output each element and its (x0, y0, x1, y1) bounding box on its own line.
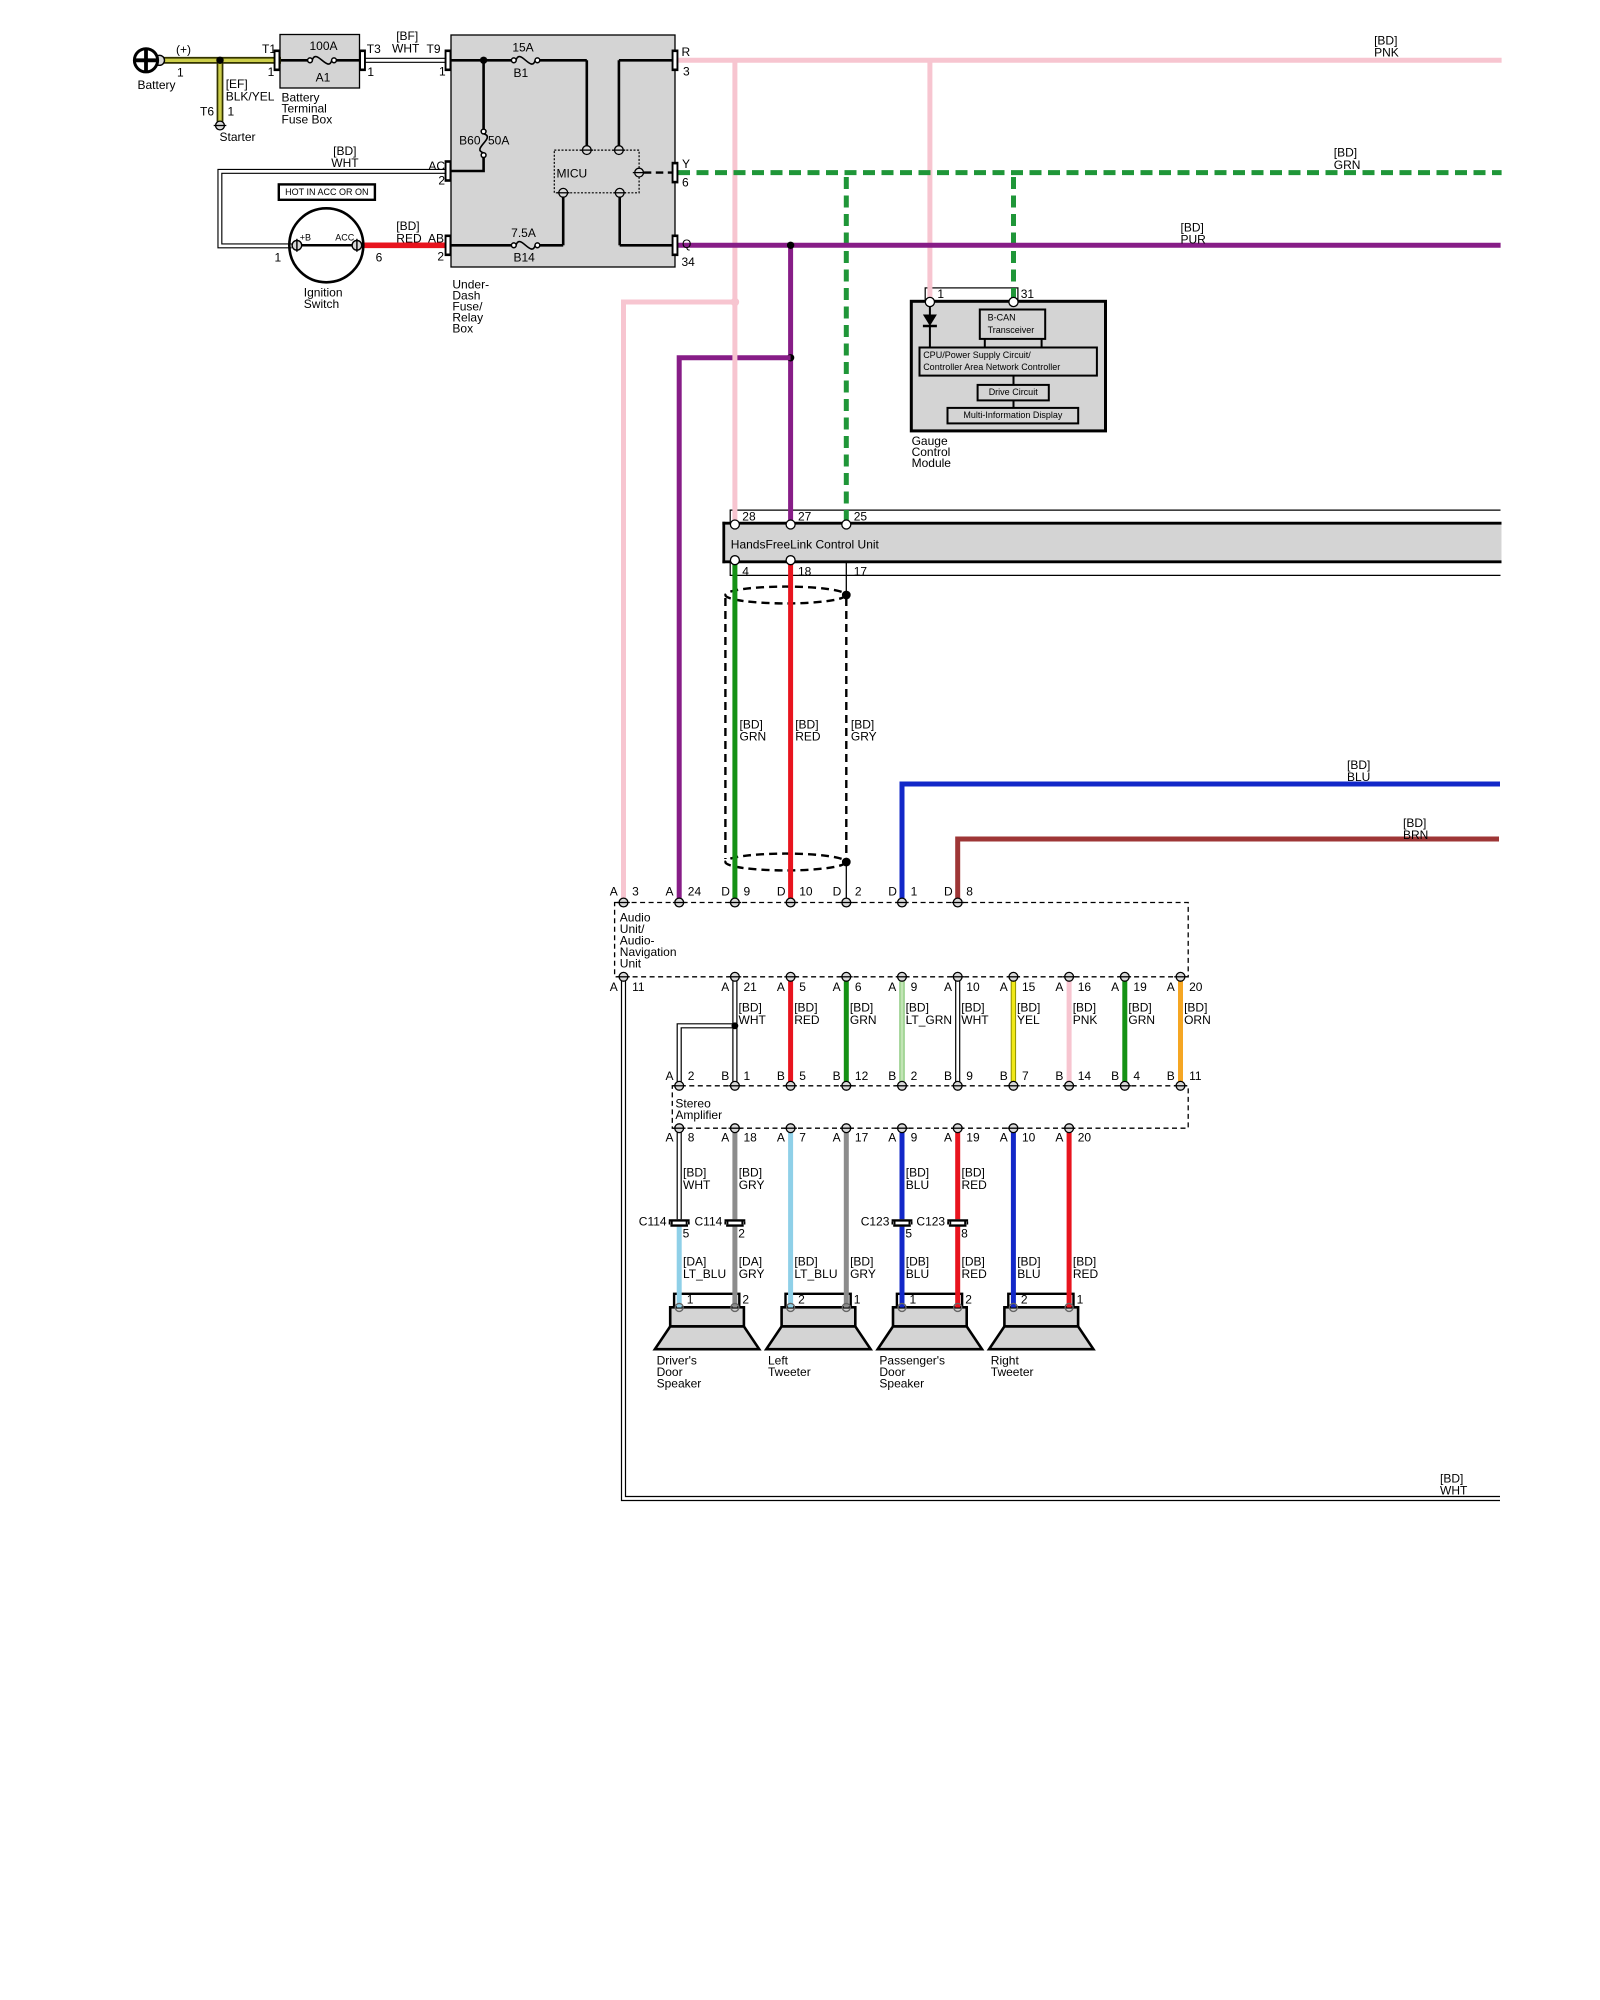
svg-text:RED: RED (396, 232, 422, 246)
svg-text:B: B (1055, 1069, 1063, 1083)
svg-text:Box: Box (452, 322, 473, 336)
svg-text:1: 1 (687, 1293, 694, 1307)
svg-text:24: 24 (688, 884, 702, 898)
svg-text:B: B (944, 1069, 952, 1083)
svg-text:Speaker: Speaker (657, 1377, 702, 1391)
svg-text:31: 31 (1021, 287, 1035, 301)
svg-text:B: B (777, 1069, 785, 1083)
svg-text:8: 8 (688, 1131, 695, 1145)
svg-text:WHT: WHT (1440, 1484, 1468, 1498)
svg-text:3: 3 (632, 884, 639, 898)
svg-text:1: 1 (439, 64, 446, 78)
svg-text:B: B (833, 1069, 841, 1083)
svg-text:5: 5 (799, 980, 806, 994)
svg-text:2: 2 (438, 173, 445, 187)
svg-text:A: A (610, 980, 618, 994)
svg-text:1: 1 (228, 104, 235, 118)
svg-text:GRY: GRY (739, 1267, 765, 1281)
svg-text:B-CAN: B-CAN (988, 313, 1016, 323)
svg-text:9: 9 (911, 980, 918, 994)
svg-text:A: A (666, 884, 674, 898)
svg-text:A: A (1055, 1131, 1063, 1145)
svg-text:ACC: ACC (335, 233, 355, 243)
svg-text:15A: 15A (512, 41, 533, 55)
svg-text:8: 8 (961, 1226, 968, 1240)
svg-text:ORN: ORN (1184, 1013, 1211, 1027)
svg-text:+B: +B (300, 233, 311, 243)
svg-text:9: 9 (966, 1069, 973, 1083)
svg-text:A: A (833, 1131, 841, 1145)
svg-text:11: 11 (1189, 1069, 1202, 1083)
svg-text:16: 16 (1078, 980, 1092, 994)
svg-text:C123: C123 (861, 1214, 890, 1228)
svg-text:D: D (833, 884, 842, 898)
svg-text:Controller Area Network Contro: Controller Area Network Controller (923, 362, 1060, 372)
svg-text:PUR: PUR (1181, 233, 1207, 247)
svg-text:A: A (721, 1131, 729, 1145)
svg-text:6: 6 (376, 251, 383, 265)
svg-text:T6: T6 (200, 104, 214, 118)
svg-text:MICU: MICU (557, 166, 588, 180)
svg-text:7: 7 (799, 1131, 806, 1145)
svg-text:GRN: GRN (850, 1013, 877, 1027)
svg-text:LT_BLU: LT_BLU (683, 1267, 726, 1281)
svg-text:27: 27 (798, 509, 812, 523)
svg-text:5: 5 (905, 1226, 912, 1240)
svg-text:Y: Y (682, 157, 690, 171)
svg-text:HOT IN ACC OR ON: HOT IN ACC OR ON (285, 187, 368, 197)
svg-text:Multi-Information Display: Multi-Information Display (963, 410, 1063, 420)
svg-text:6: 6 (682, 176, 689, 190)
svg-text:2: 2 (688, 1069, 695, 1083)
svg-text:18: 18 (798, 565, 812, 579)
svg-text:WHT: WHT (739, 1013, 767, 1027)
svg-text:20: 20 (1189, 980, 1203, 994)
svg-text:B: B (721, 1069, 729, 1083)
svg-text:A: A (1000, 980, 1008, 994)
svg-text:D: D (944, 884, 953, 898)
svg-text:WHT: WHT (331, 156, 359, 170)
svg-text:AC: AC (428, 159, 445, 173)
svg-text:BLU: BLU (1017, 1267, 1040, 1281)
svg-text:RED: RED (1073, 1267, 1099, 1281)
svg-text:A: A (1000, 1131, 1008, 1145)
svg-text:C114: C114 (695, 1214, 723, 1228)
svg-text:7.5A: 7.5A (511, 226, 536, 240)
svg-text:A: A (721, 980, 729, 994)
svg-text:Fuse Box: Fuse Box (282, 112, 333, 126)
svg-text:A: A (1055, 980, 1063, 994)
svg-text:GRY: GRY (851, 730, 877, 744)
svg-text:B: B (1167, 1069, 1175, 1083)
svg-text:B: B (1111, 1069, 1119, 1083)
svg-text:2: 2 (798, 1293, 805, 1307)
svg-text:19: 19 (1133, 980, 1147, 994)
svg-text:1: 1 (854, 1293, 861, 1307)
svg-text:YEL: YEL (1017, 1013, 1040, 1027)
svg-text:D: D (721, 884, 730, 898)
svg-text:GRY: GRY (739, 1178, 765, 1192)
svg-text:17: 17 (855, 1131, 869, 1145)
svg-text:Module: Module (912, 456, 952, 470)
svg-text:T9: T9 (427, 42, 441, 56)
svg-text:RED: RED (794, 1013, 820, 1027)
svg-text:A: A (666, 1069, 674, 1083)
svg-text:T3: T3 (367, 42, 381, 56)
svg-text:1: 1 (177, 65, 184, 79)
svg-text:19: 19 (966, 1131, 980, 1145)
svg-text:BLU: BLU (906, 1267, 929, 1281)
svg-text:B1: B1 (514, 66, 529, 80)
svg-text:Tweeter: Tweeter (991, 1365, 1034, 1379)
svg-text:B14: B14 (514, 251, 536, 265)
svg-text:Tweeter: Tweeter (768, 1365, 811, 1379)
svg-text:1: 1 (275, 251, 282, 265)
svg-text:2: 2 (742, 1293, 749, 1307)
svg-text:100A: 100A (309, 39, 337, 53)
svg-text:PNK: PNK (1374, 46, 1399, 60)
svg-text:3: 3 (683, 64, 690, 78)
svg-text:17: 17 (854, 565, 868, 579)
svg-text:Unit: Unit (620, 957, 642, 971)
svg-text:6: 6 (855, 980, 862, 994)
svg-text:B60: B60 (459, 134, 481, 148)
svg-text:GRN: GRN (1334, 158, 1361, 172)
svg-text:10: 10 (966, 980, 980, 994)
svg-text:HandsFreeLink Control Unit: HandsFreeLink Control Unit (731, 537, 880, 551)
svg-text:Starter: Starter (220, 130, 256, 144)
svg-text:WHT: WHT (392, 41, 420, 55)
svg-text:A: A (610, 884, 618, 898)
svg-text:A: A (1167, 980, 1175, 994)
svg-text:18: 18 (744, 1131, 758, 1145)
svg-text:7: 7 (1022, 1069, 1029, 1083)
svg-text:1: 1 (911, 884, 918, 898)
svg-text:12: 12 (855, 1069, 869, 1083)
svg-text:11: 11 (632, 980, 645, 994)
svg-text:A: A (833, 980, 841, 994)
svg-text:Transceiver: Transceiver (988, 325, 1035, 335)
svg-text:15: 15 (1022, 980, 1036, 994)
svg-text:A: A (1111, 980, 1119, 994)
svg-text:2: 2 (1021, 1293, 1028, 1307)
svg-text:8: 8 (966, 884, 973, 898)
svg-text:1: 1 (910, 1293, 917, 1307)
svg-text:B: B (1000, 1069, 1008, 1083)
svg-text:1: 1 (744, 1069, 751, 1083)
svg-text:1: 1 (268, 65, 275, 79)
svg-text:2: 2 (437, 249, 444, 263)
svg-text:14: 14 (1078, 1069, 1092, 1083)
svg-text:GRN: GRN (740, 730, 767, 744)
svg-text:C123: C123 (916, 1214, 945, 1228)
svg-text:A: A (944, 980, 952, 994)
svg-text:A: A (944, 1131, 952, 1145)
svg-text:1: 1 (937, 287, 944, 301)
svg-text:BLU: BLU (1347, 770, 1370, 784)
svg-text:50A: 50A (488, 134, 509, 148)
svg-text:BLK/YEL: BLK/YEL (226, 89, 275, 103)
svg-text:1: 1 (367, 65, 374, 79)
svg-text:BRN: BRN (1403, 828, 1428, 842)
svg-text:GRN: GRN (1128, 1013, 1155, 1027)
svg-text:RED: RED (962, 1267, 988, 1281)
svg-text:Speaker: Speaker (879, 1377, 924, 1391)
svg-text:Switch: Switch (304, 297, 339, 311)
svg-text:B: B (888, 1069, 896, 1083)
svg-text:(+): (+) (176, 43, 191, 57)
svg-text:RED: RED (962, 1178, 988, 1192)
svg-text:A: A (888, 1131, 896, 1145)
svg-text:R: R (682, 45, 691, 59)
svg-text:5: 5 (683, 1226, 690, 1240)
svg-text:GRY: GRY (850, 1267, 876, 1281)
svg-text:A: A (777, 1131, 785, 1145)
svg-text:34: 34 (682, 255, 696, 269)
svg-text:21: 21 (744, 980, 758, 994)
svg-text:AB: AB (428, 232, 444, 246)
svg-text:10: 10 (1022, 1131, 1036, 1145)
svg-text:RED: RED (795, 730, 821, 744)
svg-text:Battery: Battery (138, 78, 176, 92)
svg-text:D: D (888, 884, 897, 898)
svg-text:9: 9 (911, 1131, 918, 1145)
svg-text:LT_BLU: LT_BLU (794, 1267, 837, 1281)
svg-text:4: 4 (1133, 1069, 1140, 1083)
svg-text:WHT: WHT (961, 1013, 989, 1027)
svg-text:5: 5 (799, 1069, 806, 1083)
svg-text:BLU: BLU (906, 1178, 929, 1192)
svg-text:10: 10 (799, 884, 813, 898)
svg-text:LT_GRN: LT_GRN (906, 1013, 952, 1027)
svg-text:2: 2 (911, 1069, 918, 1083)
svg-text:1: 1 (1077, 1293, 1084, 1307)
svg-text:Drive Circuit: Drive Circuit (989, 387, 1039, 397)
svg-text:D: D (777, 884, 786, 898)
svg-text:A: A (666, 1131, 674, 1145)
svg-text:A: A (888, 980, 896, 994)
svg-text:C114: C114 (639, 1214, 667, 1228)
svg-text:2: 2 (738, 1226, 745, 1240)
svg-text:A: A (777, 980, 785, 994)
svg-text:2: 2 (855, 884, 862, 898)
svg-text:WHT: WHT (683, 1178, 711, 1192)
svg-text:28: 28 (742, 509, 756, 523)
svg-text:4: 4 (742, 565, 749, 579)
svg-text:9: 9 (744, 884, 751, 898)
svg-text:A1: A1 (316, 70, 331, 84)
svg-text:Amplifier: Amplifier (675, 1108, 722, 1122)
svg-text:2: 2 (965, 1293, 972, 1307)
svg-text:T1: T1 (262, 42, 276, 56)
svg-text:Q: Q (682, 237, 691, 251)
svg-text:CPU/Power Supply Circuit/: CPU/Power Supply Circuit/ (923, 350, 1031, 360)
svg-text:20: 20 (1078, 1131, 1092, 1145)
svg-text:PNK: PNK (1073, 1013, 1098, 1027)
svg-text:25: 25 (854, 509, 868, 523)
